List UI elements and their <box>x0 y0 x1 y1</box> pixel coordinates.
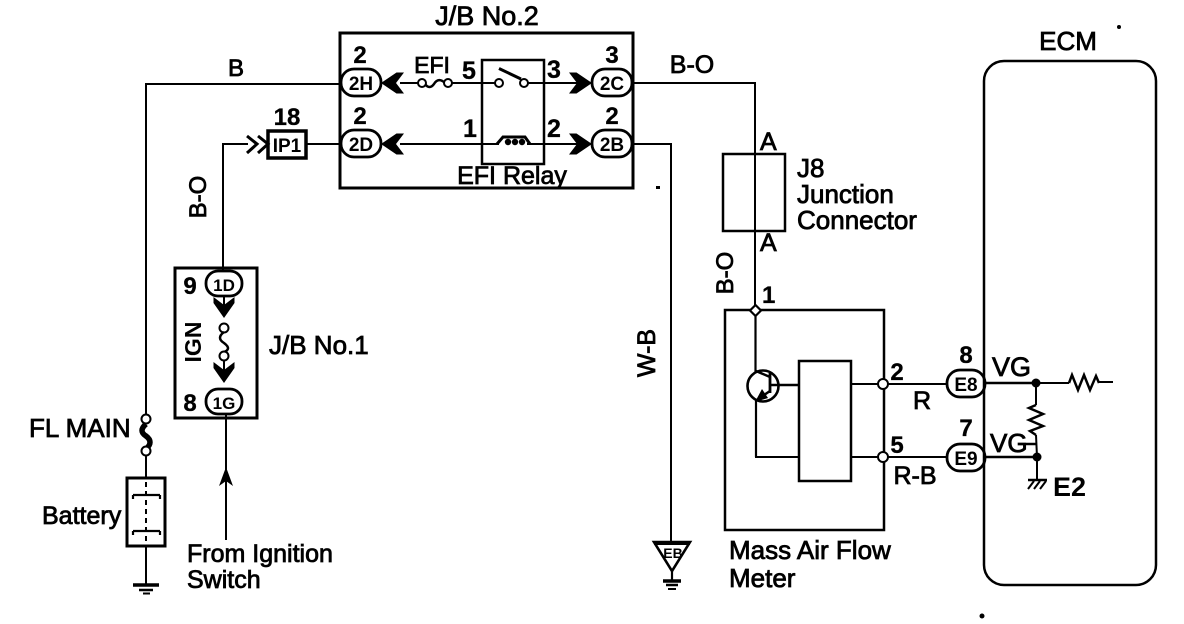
svg-text:EFI: EFI <box>414 52 450 78</box>
wire 2B to EB ground (W-B) <box>632 143 671 543</box>
arrow into 2H <box>381 73 404 94</box>
svg-text:A: A <box>760 229 777 257</box>
ground E2 <box>1028 457 1047 489</box>
battery <box>127 478 165 546</box>
EFI relay box <box>482 60 544 164</box>
junction connector J8 box <box>723 154 785 231</box>
connector 2B <box>592 130 632 157</box>
speck bottom center <box>980 614 985 619</box>
svg-text:From Ignition: From Ignition <box>187 540 333 568</box>
svg-text:Mass Air Flow: Mass Air Flow <box>729 535 891 565</box>
connector E9 <box>947 444 985 471</box>
fuse EFI <box>418 79 452 87</box>
ECM box <box>984 61 1156 585</box>
svg-text:E2: E2 <box>1053 472 1086 502</box>
svg-text:2B: 2B <box>600 135 624 156</box>
wire relay to 2B <box>544 143 592 145</box>
wire IP1 to 2D <box>306 143 341 145</box>
connector 2H <box>341 69 381 96</box>
svg-text:1D: 1D <box>213 276 235 295</box>
MAF pin 2 node <box>878 379 888 389</box>
svg-text:3: 3 <box>605 42 618 69</box>
From Ignition Switch label <box>187 540 333 594</box>
svg-text:8: 8 <box>959 342 972 369</box>
wire relay to 2C <box>544 82 592 84</box>
svg-text:Switch: Switch <box>187 566 261 594</box>
svg-text:7: 7 <box>959 415 972 442</box>
svg-text:8: 8 <box>183 390 196 417</box>
connector 1D <box>206 271 242 296</box>
svg-text:E9: E9 <box>954 449 977 470</box>
svg-text:2: 2 <box>353 42 366 69</box>
ground EB <box>654 542 690 589</box>
svg-text:Connector: Connector <box>797 205 917 235</box>
connector 2C <box>592 69 632 96</box>
svg-text:5: 5 <box>462 57 476 85</box>
ground below battery <box>133 546 159 594</box>
junction node VG <box>1032 379 1041 388</box>
svg-text:2: 2 <box>605 103 618 130</box>
transistor Q (hot wire element) <box>748 315 800 457</box>
relay coil <box>497 137 544 145</box>
junction node VG- <box>1033 453 1042 462</box>
wire pin5 to E9 <box>888 456 947 458</box>
Mass Air Flow Meter box <box>725 310 884 530</box>
svg-text:Meter: Meter <box>729 563 796 593</box>
wire battery positive vertical (B) <box>145 84 147 478</box>
svg-text:2H: 2H <box>349 74 373 95</box>
fusible link FL MAIN <box>142 415 151 456</box>
arrow above 1G <box>214 360 235 383</box>
speck top right <box>1117 25 1121 29</box>
arrow into 2C <box>569 73 592 94</box>
svg-text:2: 2 <box>547 115 561 143</box>
J/B No.2 box <box>340 33 633 188</box>
J/B No.1 box <box>175 268 257 418</box>
svg-text:B-O: B-O <box>670 51 714 79</box>
svg-text:R-B: R-B <box>893 462 936 490</box>
connector IP1 <box>268 131 306 158</box>
svg-text:EFI Relay: EFI Relay <box>457 162 567 190</box>
wire fuse to relay pin 5 <box>452 82 482 84</box>
svg-text:1: 1 <box>463 115 477 143</box>
connector 1G <box>206 389 242 414</box>
svg-text:J/B No.2: J/B No.2 <box>435 1 539 31</box>
svg-text:FL MAIN: FL MAIN <box>29 413 131 443</box>
arrow into 2B <box>569 134 592 155</box>
connector E8 <box>947 370 985 397</box>
svg-text:1G: 1G <box>213 394 236 413</box>
svg-text:VG: VG <box>992 352 1031 382</box>
VG- label <box>990 428 1037 458</box>
svg-text:5: 5 <box>890 432 903 459</box>
svg-text:2C: 2C <box>600 74 625 95</box>
wire E8 into ECM (VG) <box>985 382 1036 385</box>
wire emitter to sensing element <box>755 456 799 458</box>
wire chevron corner to J/B No.1 <box>223 143 248 272</box>
svg-text:9: 9 <box>183 273 196 300</box>
node 1 junction <box>750 305 761 316</box>
MAF pin 5 node <box>878 452 888 462</box>
chevron arrows into IP1 <box>247 136 268 153</box>
wire element to pin 5 <box>851 456 883 458</box>
svg-text:3: 3 <box>547 56 561 84</box>
svg-text:A: A <box>760 128 777 156</box>
wire 2D row into relay <box>400 143 499 145</box>
arrow into 2D <box>381 134 404 155</box>
svg-text:2D: 2D <box>349 135 373 156</box>
svg-text:B-O: B-O <box>185 176 212 219</box>
wire element to pin 2 <box>851 383 883 385</box>
wire 2C to J8 (B-O) <box>632 82 755 312</box>
svg-text:W-B: W-B <box>633 329 661 377</box>
fuse IGN <box>220 324 229 361</box>
svg-text:B: B <box>228 55 244 82</box>
svg-text:VG: VG <box>990 428 1028 458</box>
svg-text:2: 2 <box>890 359 903 386</box>
wire B horizontal to 2H <box>145 83 341 85</box>
svg-text:R: R <box>913 387 931 415</box>
relay switch contacts <box>482 69 544 88</box>
svg-text:1: 1 <box>762 282 775 309</box>
svg-text:J/B No.1: J/B No.1 <box>269 330 369 360</box>
resistor horizontal <box>1036 375 1113 390</box>
svg-text:2: 2 <box>353 103 366 130</box>
svg-text:IGN: IGN <box>180 322 206 363</box>
svg-text:ECM: ECM <box>1039 26 1097 56</box>
svg-text:Battery: Battery <box>42 502 122 530</box>
resistor vertical <box>1029 383 1043 457</box>
sensing element box <box>799 361 851 481</box>
svg-text:18: 18 <box>274 104 301 131</box>
Mass Air Flow Meter label <box>729 535 891 593</box>
svg-text:IP1: IP1 <box>273 136 302 157</box>
svg-text:EB: EB <box>663 545 682 561</box>
svg-text:E8: E8 <box>954 375 977 396</box>
connector 2D <box>341 130 381 157</box>
arrow below 1D <box>214 296 235 318</box>
wire pin2 to E8 <box>888 383 947 385</box>
svg-text:B-O: B-O <box>712 252 739 295</box>
wire from ignition switch <box>219 413 233 540</box>
wire 2H to EFI fuse <box>400 82 419 84</box>
J8 Junction Connector label <box>797 153 917 235</box>
wire E9 into ECM (VG-) <box>985 456 1037 459</box>
speck below J/B No.2 <box>656 186 660 189</box>
